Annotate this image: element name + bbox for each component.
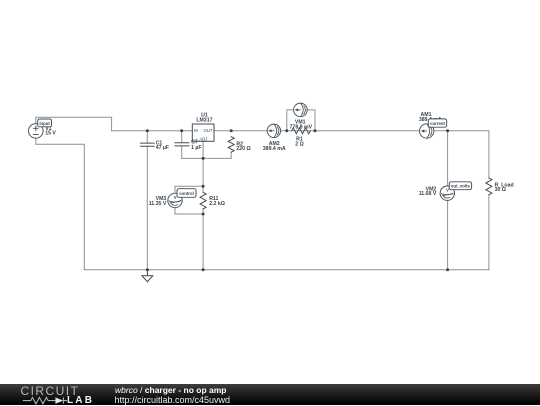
wire bottom rail (84, 269, 489, 271)
CircuitLab logo wordmark CIRCUIT (21, 384, 80, 398)
svg-text:V: V (446, 188, 449, 193)
wire C7 bottom lead to ADJ node (182, 146, 203, 159)
node label input (38, 119, 52, 127)
node label out_volts (449, 182, 471, 190)
svg-text:ADJ: ADJ (198, 136, 208, 141)
svg-text:2.2 kΩ: 2.2 kΩ (209, 201, 225, 207)
junction node ground/bottom rail (146, 268, 149, 271)
svg-text:11.68 V: 11.68 V (419, 191, 437, 197)
wire ADJ node down to R11 (202, 158, 204, 192)
footer url line (115, 395, 231, 405)
voltmeter VM2 (440, 186, 454, 200)
junction node R11/bottom rail (202, 268, 205, 271)
wire C1 top lead (146, 131, 148, 143)
ammeter AM1 (420, 124, 434, 138)
wire right drop to R_Load (488, 131, 490, 178)
node label control (177, 189, 196, 198)
junction node VM3 bottom/R11 (202, 213, 205, 216)
svg-text:LM317: LM317 (196, 117, 212, 123)
svg-text:current: current (430, 121, 445, 126)
voltage source V1 (29, 124, 44, 139)
resistor R11 (200, 192, 206, 209)
resistor R_Load (486, 178, 492, 195)
svg-text:11.35 V: 11.35 V (149, 201, 167, 207)
wire R11 bottom to bottom rail (202, 209, 204, 270)
svg-text:1 µF: 1 µF (191, 145, 201, 151)
wire C1 bottom lead to bottom rail (146, 146, 148, 269)
wire VM2 vertical through meter (447, 131, 449, 270)
wire below R_Load (488, 195, 490, 270)
CircuitLab logo wordmark LAB (67, 395, 94, 406)
svg-text:V: V (174, 195, 177, 200)
op-amp regulator U1 LM317 box (192, 124, 214, 141)
wire VM1 parallel loop (287, 110, 315, 131)
svg-text:input: input (39, 121, 50, 126)
wire VM3 bottom branch (175, 208, 203, 214)
junction node VM2/bottom rail (446, 268, 449, 271)
svg-text:15 V: 15 V (45, 131, 56, 137)
svg-text:778.8 mV: 778.8 mV (290, 125, 313, 131)
svg-text:OUT: OUT (204, 128, 213, 133)
voltmeter VM3 (168, 193, 182, 207)
wire U1 ADJ pin lead (202, 141, 204, 158)
wire R2 bottom lead to ADJ node (203, 152, 231, 158)
wire top jog from V1 plus terminal (36, 117, 112, 131)
capacitor C1 (140, 143, 154, 146)
junction node VM2 tap/top rail (446, 129, 449, 132)
svg-text:47 µF: 47 µF (156, 145, 169, 151)
junction node C1/top rail (146, 129, 149, 132)
voltmeter VM1 (294, 103, 308, 117)
node label current (428, 119, 446, 127)
junction node R1 left (285, 129, 288, 132)
CircuitLab logo resistor-diode glyph (20, 396, 68, 405)
ground symbol (142, 270, 153, 282)
wire V1 minus terminal down and right to bottom rail (36, 138, 85, 270)
wire main top rail (112, 130, 489, 132)
svg-text:389.4 mA: 389.4 mA (263, 146, 286, 152)
svg-text:out_volts: out_volts (451, 184, 471, 189)
capacitor C7 (175, 143, 189, 146)
junction node C7/top rail (180, 129, 183, 132)
resistor R2 (228, 137, 234, 153)
resistor R1 (292, 128, 311, 134)
footer title line (115, 385, 227, 395)
svg-text:2 Ω: 2 Ω (295, 142, 304, 148)
wire VM3 top branch (175, 186, 203, 193)
wire C7 top lead (181, 131, 183, 143)
svg-text:control: control (179, 191, 194, 196)
svg-text:30 Ω: 30 Ω (495, 187, 506, 193)
ammeter AM2 (267, 124, 280, 137)
junction node R1 right (314, 129, 317, 132)
svg-text:220 Ω: 220 Ω (236, 146, 250, 152)
junction node R2/top rail (230, 129, 233, 132)
junction node VM3 top/R11 (202, 185, 205, 188)
junction node ADJ/C7/R2 (202, 157, 205, 160)
